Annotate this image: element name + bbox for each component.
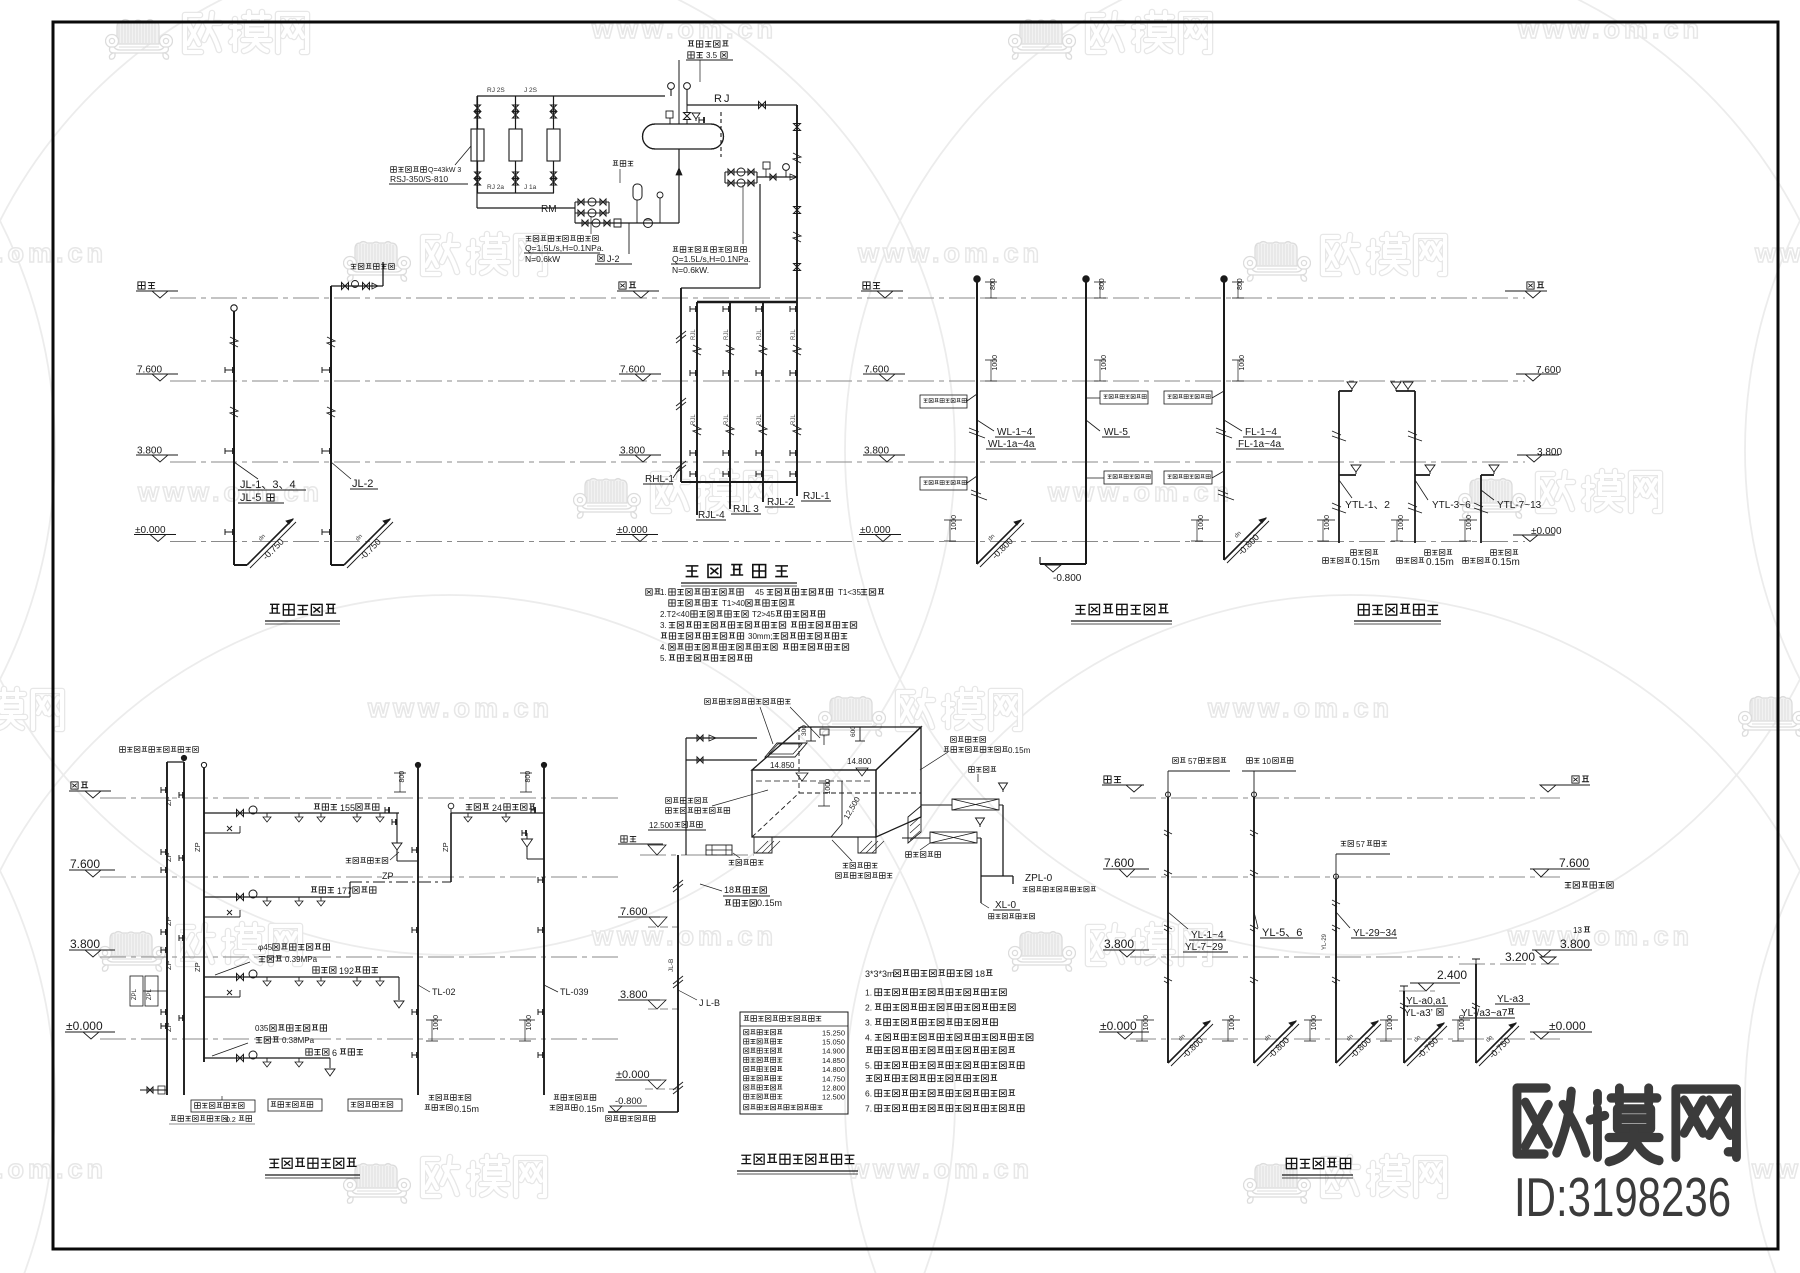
- svg-text:57: 57: [1356, 840, 1365, 849]
- label air source heat pump: [391, 167, 397, 173]
- label FL-1-4: [1224, 420, 1242, 431]
- label tank test device: [346, 858, 352, 863]
- sprinkler elevation markers left: [71, 782, 78, 789]
- pump downfeed: [759, 184, 761, 288]
- svg-text:TL-02: TL-02: [432, 987, 456, 997]
- label YL-1-4: [1168, 912, 1188, 929]
- hot water riser fittings: [690, 308, 697, 310]
- tank dim 1000: [818, 782, 830, 784]
- arm floor2 drain funnel: [398, 977, 400, 1000]
- title hot water system diagram: [686, 566, 699, 577]
- svg-text:YL-a0,a1: YL-a0,a1: [1406, 996, 1447, 1007]
- label manhole float valve: [705, 699, 711, 705]
- ZP transfer dash line: [350, 881, 451, 883]
- svg-text:12.800: 12.800: [822, 1084, 845, 1093]
- hot water notes text: [646, 589, 652, 595]
- drop fittings: [794, 124, 801, 131]
- svg-text:800: 800: [525, 771, 532, 783]
- svg-text:ZPL-0: ZPL-0: [1025, 873, 1053, 884]
- svg-text:N=0.6kW.: N=0.6kW.: [672, 265, 709, 275]
- svg-text:30mm;: 30mm;: [748, 632, 772, 641]
- balcony riser YTL-2 mid branch: [1425, 465, 1435, 472]
- balcony riser YTL-1: [1339, 390, 1352, 392]
- svg-text:YL-29~34: YL-29~34: [1353, 928, 1397, 939]
- pressure gauge: [657, 192, 663, 198]
- hot water riser RJL-4: [696, 302, 698, 515]
- level line 0.000 top band: [170, 541, 1525, 543]
- rain riser YL-1 outfall: [1142, 1019, 1154, 1021]
- RM line: [477, 207, 575, 209]
- svg-text:±0.000: ±0.000: [1549, 1019, 1586, 1033]
- ZPL-0 branch: [981, 875, 1013, 877]
- svg-text:φ45: φ45: [258, 943, 273, 952]
- tank vent pipes with caps: [668, 83, 675, 90]
- svg-text:RJL: RJL: [757, 414, 763, 425]
- svg-text:800: 800: [1237, 278, 1244, 290]
- watermark row 5: [99, 932, 166, 972]
- svg-text:N=0.6kW: N=0.6kW: [525, 254, 560, 264]
- heat pump unit 2: [509, 129, 522, 161]
- waste riser 3 outfall: [1197, 519, 1209, 521]
- riser JL-1 fittings: [230, 337, 238, 347]
- rain riser YL-1: [1167, 797, 1169, 1063]
- rain riser YL-a0: [1403, 991, 1405, 1063]
- rain riser YL-a3: [1475, 964, 1477, 1063]
- svg-text:www.om.cn: www.om.cn: [367, 693, 553, 723]
- svg-text:JL-2: JL-2: [352, 478, 373, 490]
- svg-text:-0.800: -0.800: [615, 1096, 642, 1107]
- svg-text:0.15m: 0.15m: [757, 898, 782, 908]
- svg-text:192: 192: [339, 966, 354, 976]
- svg-text:1000: 1000: [1387, 1015, 1394, 1031]
- svg-text:12.500: 12.500: [649, 821, 674, 830]
- tank center pipe: [678, 60, 680, 124]
- logo character ou: [1517, 1088, 1586, 1154]
- svg-text:4.: 4.: [865, 1033, 872, 1043]
- balcony riser YTL-2: [1396, 390, 1415, 392]
- svg-text:10: 10: [1262, 757, 1271, 766]
- hot water riser RJL-2: [762, 302, 764, 502]
- hot water upper header: [681, 287, 760, 289]
- balcony riser YTL-3 fittings: [1474, 503, 1488, 513]
- svg-text:www.om.cn: www.om.cn: [1207, 693, 1393, 723]
- fire main riser outlet: [608, 1111, 678, 1113]
- svg-text:15.050: 15.050: [822, 1038, 845, 1047]
- right margin label cold drain: [1565, 882, 1571, 887]
- sprinkler bottom dims: [430, 1019, 442, 1021]
- sprinkler arm floor3: [204, 896, 350, 898]
- arm floor4 stub: [204, 832, 240, 834]
- title water supply system diagram: [269, 604, 280, 613]
- rain riser YL-a0 outfall: [1386, 1019, 1398, 1021]
- logo character wang: [1676, 1089, 1737, 1157]
- expansion vessel: [633, 184, 642, 200]
- tank manhole cover: [765, 743, 807, 757]
- svg-text:ZP: ZP: [164, 916, 173, 926]
- svg-text:TL-039: TL-039: [560, 987, 589, 997]
- waste riser 3: [1223, 282, 1225, 560]
- svg-text:0.15m: 0.15m: [1492, 557, 1520, 568]
- svg-text:RJL: RJL: [791, 414, 797, 425]
- svg-text:3.800: 3.800: [70, 937, 100, 951]
- svg-text:ZP: ZP: [164, 796, 173, 806]
- svg-text:5.: 5.: [660, 654, 667, 663]
- arm floor2 stub: [204, 996, 240, 998]
- waste riser 2 branch boxes: [1100, 391, 1148, 404]
- sprinkler outfall texts: [429, 1095, 435, 1100]
- rain riser YL-5: [1253, 797, 1255, 1063]
- svg-text:RJL: RJL: [691, 329, 697, 340]
- svg-text:1000: 1000: [1324, 515, 1331, 531]
- svg-text:RJL: RJL: [691, 414, 697, 425]
- svg-text:J L-B: J L-B: [699, 998, 720, 1008]
- label 155 heads: [314, 804, 320, 809]
- sprinkler feed riser: [203, 768, 205, 1062]
- ZP riser right section: [450, 813, 452, 882]
- svg-text:www.om.cn: www.om.cn: [1517, 14, 1703, 44]
- drain funnel 2: [976, 818, 985, 825]
- svg-text:800: 800: [1099, 278, 1106, 290]
- label YL-29-34: [1336, 912, 1350, 928]
- svg-text:YL-a3: YL-a3: [1497, 994, 1524, 1005]
- svg-text:1000: 1000: [825, 779, 832, 795]
- tank bottom circuit pipe: [574, 213, 576, 223]
- logo id number: [1514, 1168, 1731, 1229]
- svg-text:J 1a: J 1a: [524, 184, 537, 191]
- label tank drain valve box: [843, 863, 849, 868]
- balcony riser YTL-1 fittings: [1332, 431, 1346, 441]
- waste riser 2 vent cap: [1083, 276, 1089, 282]
- label expansion vessel: [613, 161, 619, 166]
- svg-text:155: 155: [340, 803, 355, 813]
- svg-text:ZP: ZP: [164, 960, 173, 970]
- label YTL-3-6: [1415, 480, 1428, 500]
- svg-text:14.750: 14.750: [822, 1074, 845, 1083]
- svg-text:0.15m: 0.15m: [1426, 557, 1454, 568]
- rain riser YL-5 outfall: [1228, 1019, 1240, 1021]
- title sewage waste water system diagram: [1075, 605, 1085, 614]
- svg-text:RJ 2S: RJ 2S: [487, 87, 505, 94]
- hot water tank: [643, 124, 724, 149]
- svg-text:035: 035: [255, 1024, 269, 1033]
- label hot water supply pump: [742, 185, 744, 244]
- hot water supply pump group: [725, 171, 757, 173]
- svg-text:RJ 2a: RJ 2a: [487, 184, 504, 191]
- svg-text:0.15m: 0.15m: [1352, 557, 1380, 568]
- label JL-1 3 4: [234, 462, 258, 479]
- svg-text:800: 800: [990, 278, 997, 290]
- svg-text:www.om.cn: www.om.cn: [857, 238, 1043, 268]
- svg-text:600: 600: [850, 726, 857, 737]
- svg-text:1000: 1000: [1101, 355, 1108, 371]
- title balcony water system diagram: [1358, 604, 1369, 615]
- svg-text:WL-5: WL-5: [1104, 427, 1128, 438]
- svg-text:RJL-4: RJL-4: [698, 510, 725, 521]
- svg-text:24: 24: [492, 803, 502, 813]
- rain riser YL-29 top label: [1341, 841, 1347, 846]
- fire tank hidden edges: [798, 727, 800, 793]
- svg-text:T1<35: T1<35: [838, 588, 861, 597]
- svg-text:12.500: 12.500: [822, 1093, 845, 1102]
- svg-text:3.200: 3.200: [1505, 950, 1535, 964]
- rain elevation markers left: [1104, 776, 1111, 783]
- level line roof top band: [170, 297, 1525, 299]
- fire tank box front face: [752, 770, 876, 837]
- label TL-02: [418, 985, 430, 992]
- svg-text:300: 300: [801, 725, 808, 736]
- svg-text:Q=1.5L/s,H=0.1NPa.: Q=1.5L/s,H=0.1NPa.: [672, 254, 751, 264]
- svg-text:4.: 4.: [660, 643, 667, 652]
- label RJ-2 pipe: [628, 223, 630, 254]
- label level indicator: [666, 798, 672, 804]
- svg-text:7.600: 7.600: [620, 906, 648, 918]
- svg-text:0.15m: 0.15m: [1008, 746, 1031, 755]
- svg-text:14.850: 14.850: [822, 1056, 845, 1065]
- svg-text:RHL-1: RHL-1: [645, 474, 674, 485]
- svg-text:ZP: ZP: [441, 842, 450, 852]
- fire valve box on roof line: [706, 845, 732, 855]
- heat pump unit 3: [547, 129, 560, 161]
- svg-text:www.om.cn: www.om.cn: [847, 1154, 1033, 1184]
- arm floor4 test drain: [396, 813, 398, 843]
- level line roof bottom band left: [100, 797, 618, 799]
- label connect roof hot water tank: [351, 264, 357, 269]
- svg-text:0.15m: 0.15m: [579, 1104, 604, 1114]
- svg-text:RSJ-350/S-810: RSJ-350/S-810: [390, 174, 448, 184]
- RJ supply line: [687, 104, 797, 106]
- fire label to outdoor main: [606, 1116, 612, 1122]
- level line 3.800 top band: [170, 461, 1525, 463]
- hot water main drop RJ: [796, 105, 798, 496]
- rain riser YL-29 outfall: [1310, 1019, 1322, 1021]
- level line 7.600 rain: [1130, 876, 1560, 878]
- waste riser 1 branch boxes: [920, 395, 967, 408]
- waste riser 3 dim 800: [1232, 281, 1244, 283]
- svg-text:2.T2<40: 2.T2<40: [660, 610, 690, 619]
- svg-text:ZP: ZP: [382, 871, 394, 881]
- rain riser YL-a3 outfall: [1458, 1019, 1470, 1021]
- tank float valve stubs and dims: [810, 727, 812, 741]
- svg-text:14.850: 14.850: [770, 761, 795, 770]
- level line 3.800 bottom band left: [100, 956, 618, 958]
- overflow pipe box 2: [902, 837, 930, 839]
- svg-text:FL-1a~4a: FL-1a~4a: [1238, 439, 1282, 450]
- svg-text:1000: 1000: [951, 515, 958, 531]
- svg-text:±0.000: ±0.000: [616, 1069, 650, 1081]
- svg-text:14.900: 14.900: [822, 1047, 845, 1056]
- riser JL-2 fittings: [327, 337, 335, 347]
- svg-text:J-2: J-2: [607, 254, 620, 264]
- svg-text:15.250: 15.250: [822, 1028, 845, 1037]
- overflow pipe box 1: [921, 804, 952, 806]
- svg-text:XL-0: XL-0: [995, 900, 1017, 911]
- balcony riser YTL-2 drain texts: [1425, 550, 1431, 556]
- svg-text:3.: 3.: [865, 1018, 872, 1028]
- balcony riser YTL-2 top funnels: [1391, 382, 1401, 389]
- label JL-B: [678, 990, 697, 1000]
- riser JL-2 bottom elbow: [331, 564, 344, 566]
- sprinkler inlet note: [120, 747, 126, 753]
- svg-text:RJ: RJ: [714, 93, 731, 105]
- svg-text:ZP: ZP: [193, 962, 202, 972]
- sprinkler right standpipe C: [543, 768, 545, 1095]
- label set valve box 2: [906, 852, 912, 858]
- svg-text:ZPL: ZPL: [132, 988, 138, 1000]
- svg-text:0.38MPa: 0.38MPa: [282, 1036, 315, 1045]
- waste riser 1 check fittings: [969, 428, 987, 500]
- svg-text:7.: 7.: [865, 1104, 872, 1114]
- svg-text:1000: 1000: [1459, 1015, 1466, 1031]
- svg-text:45: 45: [755, 588, 764, 597]
- balcony riser YTL-1 drain texts: [1351, 550, 1357, 556]
- fire tank box top face: [752, 727, 921, 770]
- svg-text:2.400: 2.400: [1437, 968, 1467, 982]
- fire inlet pipe upper: [686, 737, 757, 739]
- svg-text:YL-/a3~a7: YL-/a3~a7: [1461, 1008, 1508, 1019]
- sprinkler arm roof right: [451, 812, 545, 814]
- top band elevation markers column C: [863, 282, 870, 289]
- waste riser 3 vent cap: [1221, 276, 1227, 282]
- tank internal drain pipe: [841, 781, 843, 824]
- svg-text:ID:3198236: ID:3198236: [1514, 1168, 1731, 1229]
- svg-text:3.800: 3.800: [1560, 937, 1590, 951]
- balcony riser YTL-1 mid branch funnel: [1351, 465, 1361, 472]
- svg-text:3.800: 3.800: [1104, 937, 1134, 951]
- svg-text:3.: 3.: [660, 621, 667, 630]
- svg-text:ZPL: ZPL: [147, 988, 153, 1000]
- svg-text:RM: RM: [541, 204, 557, 215]
- level line 7.600 top band: [170, 380, 1525, 382]
- hot water riser RJL-3: [729, 302, 731, 509]
- balcony riser YTL-3 drain texts: [1491, 550, 1497, 556]
- rain riser YL-1 top label: [1173, 758, 1179, 764]
- sprinkler arm floor1: [204, 1057, 330, 1059]
- waste riser 3 branch boxes: [1164, 391, 1212, 404]
- riser JL-1: [233, 311, 235, 565]
- heat pump unit risers: [477, 96, 479, 129]
- sprinkler main riser pair: [166, 762, 168, 1095]
- svg-text:800: 800: [399, 771, 406, 783]
- svg-text:5.: 5.: [865, 1061, 872, 1071]
- sprinkler riser pair fittings: [161, 789, 167, 791]
- hot water bottom header: [681, 481, 797, 483]
- label 192 heads: [313, 967, 319, 973]
- fire tank box right face: [876, 727, 921, 837]
- waste riser 1 dim 800: [985, 281, 997, 283]
- fire tank base pads hatched: [754, 837, 876, 853]
- label WL-1-4: [977, 420, 994, 431]
- svg-text:FL-1~4: FL-1~4: [1245, 427, 1277, 438]
- top band elevation markers column B: [619, 282, 626, 289]
- sprinkler arm floor4: [204, 812, 399, 814]
- svg-text:ZP: ZP: [193, 842, 202, 852]
- level line roof rain: [1130, 797, 1560, 799]
- svg-text:RJL: RJL: [724, 414, 730, 425]
- waste riser 2: [1085, 282, 1087, 564]
- arm floor1 drain: [329, 1058, 331, 1068]
- label TL-039: [544, 985, 558, 992]
- fire levels: [640, 854, 754, 856]
- logo characters group: [1517, 1088, 1736, 1162]
- overflow funnel: [999, 783, 1008, 790]
- svg-text:RJL-1: RJL-1: [803, 491, 830, 502]
- svg-text:1.: 1.: [660, 588, 667, 597]
- label 24 heads: [466, 804, 472, 809]
- svg-text:13: 13: [1573, 926, 1582, 935]
- sprinkler left boxed risers ZPL: [130, 976, 143, 1006]
- svg-text:JL-1、3、4: JL-1、3、4: [240, 479, 296, 491]
- waste riser 3 dim 1000: [1232, 359, 1244, 361]
- svg-text:3.800: 3.800: [620, 989, 648, 1001]
- svg-text:T2>45: T2>45: [752, 610, 775, 619]
- label circulation pump: [590, 216, 592, 234]
- label YL-5 6: [1254, 912, 1258, 928]
- riser JL-1 bottom elbow: [234, 564, 247, 566]
- balcony riser YTL-2 dim: [1397, 519, 1409, 521]
- circulation pump group: [575, 201, 609, 203]
- svg-text:RJL: RJL: [791, 329, 797, 340]
- svg-text:1000: 1000: [1143, 1015, 1150, 1031]
- svg-text:2.: 2.: [865, 1003, 872, 1013]
- sprinkler bottom boxed labels: [191, 1100, 255, 1112]
- label JL-2: [331, 462, 351, 479]
- top band elevation markers column A: [138, 282, 145, 289]
- waste riser 1 outfall: [950, 519, 962, 521]
- level line 3.800 rain: [1130, 956, 1460, 958]
- svg-text:www.om.cn: www.om.cn: [591, 921, 777, 951]
- tank dashed right edge: [720, 112, 722, 157]
- hot water return pipe RHL: [680, 288, 682, 482]
- balcony riser YTL-2 fittings: [1408, 431, 1422, 441]
- svg-text:57: 57: [1188, 757, 1197, 766]
- svg-text:1000: 1000: [1398, 515, 1405, 531]
- tank water level dashes: [756, 780, 872, 782]
- svg-text:JL-5: JL-5: [240, 492, 261, 504]
- title automatic sprinkler system diagram: [269, 1159, 279, 1167]
- svg-text:1000: 1000: [1198, 515, 1205, 531]
- svg-text:3*3*3m: 3*3*3m: [865, 969, 895, 979]
- label pressure hot water tank capacity 3.5t: [688, 41, 694, 46]
- fire elevation marker roof: [621, 836, 627, 842]
- fire inlet downcomer: [685, 738, 687, 855]
- label WL-5: [1086, 420, 1100, 431]
- sprinkler bottom left assembly: [140, 1089, 167, 1091]
- svg-text:18: 18: [975, 969, 985, 979]
- svg-text:RJL: RJL: [724, 329, 730, 340]
- sprinkler arm floor2: [204, 976, 399, 978]
- svg-text:-0.800: -0.800: [1053, 573, 1082, 584]
- svg-text:www.om.cn: www.om.cn: [1047, 477, 1233, 507]
- fire tank data table: [740, 1012, 848, 1114]
- balcony riser YTL-3 dim: [1465, 519, 1477, 521]
- riser JL-2 top branch to roof tank: [331, 285, 383, 287]
- sprinkler right standpipe A: [417, 768, 419, 1095]
- riser JL-1 vent cap: [231, 305, 237, 311]
- svg-text:0.39MPa: 0.39MPa: [285, 955, 318, 964]
- svg-text:1000: 1000: [1311, 1015, 1318, 1031]
- svg-text:1000: 1000: [433, 1015, 440, 1031]
- svg-text:1000: 1000: [526, 1015, 533, 1031]
- rain riser YL-29: [1335, 879, 1337, 1063]
- waste riser 2 dim 800: [1094, 281, 1106, 283]
- svg-text:YTL-7~13: YTL-7~13: [1497, 500, 1542, 511]
- waste riser 1 vent cap: [974, 276, 980, 282]
- svg-text:RJL: RJL: [757, 329, 763, 340]
- svg-text:6: 6: [332, 1048, 337, 1058]
- fire main riser: [677, 855, 679, 1112]
- hot water top header thick: [697, 301, 797, 304]
- riser JL-1 outfall: [247, 519, 293, 565]
